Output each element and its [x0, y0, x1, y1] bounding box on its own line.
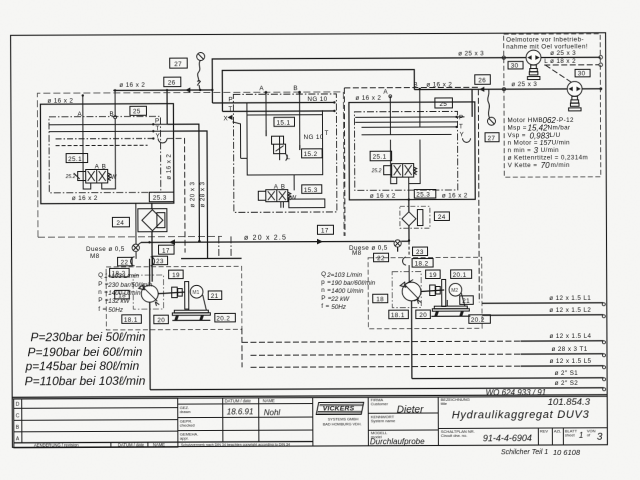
svg-text:Nohl: Nohl [264, 408, 281, 417]
svg-text:A: A [77, 111, 82, 118]
svg-text:M8: M8 [352, 250, 362, 257]
svg-text:23: 23 [156, 258, 164, 265]
svg-text:f =: f = [321, 303, 329, 310]
svg-text:A: A [383, 89, 388, 96]
svg-text:25.3: 25.3 [416, 192, 430, 199]
svg-text:Y: Y [460, 131, 465, 138]
svg-text:Schilcher Teil 1: Schilcher Teil 1 [501, 449, 548, 456]
svg-text:P=230bar bei 50ℓ/min: P=230bar bei 50ℓ/min [30, 330, 145, 345]
svg-text:checked: checked [180, 423, 195, 428]
svg-text:L/U: L/U [550, 132, 561, 139]
svg-text:BAD HOMBURG VDH.: BAD HOMBURG VDH. [323, 422, 362, 426]
svg-text:1400 U/min: 1400 U/min [108, 290, 141, 297]
svg-text:Vsp =: Vsp = [508, 132, 526, 139]
svg-text:Schutzvermerk nach DIN 34 beac: Schutzvermerk nach DIN 34 beachten copyr… [181, 443, 290, 447]
svg-text:p=145bar bei 80ℓ/min: p=145bar bei 80ℓ/min [25, 359, 140, 374]
svg-text:26: 26 [168, 80, 176, 87]
svg-text:132 kW: 132 kW [108, 298, 130, 305]
svg-text:ø 12 x 1.5 L4: ø 12 x 1.5 L4 [549, 333, 591, 340]
svg-text:30: 30 [511, 62, 519, 69]
svg-text:sheet: sheet [565, 432, 576, 437]
svg-text:T: T [228, 106, 232, 113]
svg-text:22: 22 [377, 255, 385, 262]
svg-text:230 bar/50ℓ/min: 230 bar/50ℓ/min [107, 282, 153, 289]
svg-text:25.1: 25.1 [68, 156, 82, 163]
svg-text:190 bar/60ℓ/min: 190 bar/60ℓ/min [331, 280, 376, 287]
svg-text:ø 16 x 2: ø 16 x 2 [370, 193, 396, 200]
svg-text:Hydraulikaggregat DUV3: Hydraulikaggregat DUV3 [452, 409, 590, 422]
svg-text:A: A [274, 184, 279, 191]
svg-text:ø 2″ S1: ø 2″ S1 [555, 370, 579, 377]
svg-text:24: 24 [116, 220, 124, 227]
svg-text:M2: M2 [451, 288, 458, 294]
svg-text:1400 U/min: 1400 U/min [331, 288, 364, 295]
svg-text:20: 20 [157, 317, 165, 324]
svg-text:22: 22 [121, 259, 129, 266]
svg-text:18.6.91: 18.6.91 [227, 407, 254, 416]
svg-text:m/min: m/min [551, 162, 570, 169]
svg-text:AENDERUNG / revision: AENDERUNG / revision [34, 443, 79, 448]
svg-text:B: B [102, 163, 107, 170]
svg-text:21: 21 [211, 293, 219, 300]
svg-text:27: 27 [174, 61, 182, 68]
svg-text:25.3: 25.3 [153, 195, 167, 202]
svg-text:B: B [413, 82, 418, 89]
svg-text:T: T [325, 130, 329, 137]
svg-text:ø 2″ S2: ø 2″ S2 [555, 380, 579, 387]
svg-text:ø 16 x 2: ø 16 x 2 [442, 192, 468, 199]
svg-text:Q: Q [98, 272, 103, 279]
svg-text:ø 16 x 2: ø 16 x 2 [119, 82, 145, 89]
svg-text:18.1: 18.1 [391, 312, 405, 319]
svg-text:SYSTEMS GMBH: SYSTEMS GMBH [328, 417, 359, 421]
svg-text:WO 624 933 / 91: WO 624 933 / 91 [486, 388, 547, 397]
svg-text:B: B [293, 85, 298, 92]
svg-text:n min =: n min = [508, 147, 532, 154]
svg-text:ø 25 x 3: ø 25 x 3 [458, 50, 484, 57]
svg-text:System name: System name [371, 418, 396, 423]
svg-text:2=103 L/min: 2=103 L/min [326, 272, 362, 279]
svg-text:DATUM / date: DATUM / date [225, 398, 252, 403]
svg-text:P: P [228, 96, 233, 103]
svg-text:18.1: 18.1 [124, 317, 138, 324]
svg-text:15.3: 15.3 [304, 187, 318, 194]
svg-text:U/min: U/min [541, 147, 560, 154]
svg-text:P=110bar bei 103ℓ/min: P=110bar bei 103ℓ/min [25, 374, 146, 389]
svg-text:1=103 L/min: 1=103 L/min [104, 273, 139, 280]
svg-text:25: 25 [439, 101, 447, 108]
svg-text:Y: Y [156, 132, 161, 139]
svg-text:title: title [441, 401, 448, 406]
svg-text:ø 28 x 3: ø 28 x 3 [199, 181, 206, 207]
svg-text:91-4-4-6904: 91-4-4-6904 [483, 433, 532, 443]
svg-text:n =: n = [98, 289, 108, 296]
svg-text:NG 10: NG 10 [304, 134, 324, 141]
svg-text:p =: p = [321, 279, 331, 286]
svg-text:Circuit drw. no.: Circuit drw. no. [441, 433, 467, 438]
svg-text:DATUM / date: DATUM / date [118, 442, 145, 447]
svg-text:ø 20 x 3: ø 20 x 3 [189, 181, 196, 207]
svg-text:appr.: appr. [180, 436, 189, 441]
svg-text:50Hz: 50Hz [108, 307, 124, 314]
svg-text:19: 19 [429, 272, 437, 279]
svg-text:20: 20 [419, 312, 427, 319]
svg-text:70: 70 [541, 161, 550, 170]
svg-text:nahme mit Oel vorfuellen!: nahme mit Oel vorfuellen! [506, 43, 588, 50]
svg-text:27: 27 [488, 135, 496, 142]
svg-text:drawn: drawn [180, 409, 191, 414]
svg-text:T: T [155, 125, 159, 132]
svg-text:Duese ø 0,5: Duese ø 0,5 [86, 246, 125, 253]
svg-text:20.2: 20.2 [471, 317, 485, 324]
svg-text:M8: M8 [90, 253, 100, 260]
svg-text:3: 3 [597, 432, 603, 443]
svg-text:Msp =: Msp = [507, 125, 526, 132]
svg-text:P: P [155, 118, 160, 125]
svg-text:U/min: U/min [552, 139, 571, 146]
svg-text:A: A [259, 85, 264, 92]
svg-text:D: D [16, 402, 20, 408]
svg-text:24: 24 [438, 214, 446, 221]
svg-text:NAME: NAME [153, 442, 165, 447]
svg-text:A: A [95, 163, 100, 170]
svg-text:B: B [281, 184, 286, 191]
svg-text:C: C [16, 413, 20, 419]
svg-text:f =: f = [98, 306, 106, 313]
svg-text:ø 12 x 1.5 L1: ø 12 x 1.5 L1 [549, 295, 591, 302]
svg-text:101.854.3: 101.854.3 [548, 397, 591, 408]
svg-text:NAME: NAME [263, 398, 275, 403]
svg-text:ø 12 x 1.5 L2: ø 12 x 1.5 L2 [549, 307, 591, 314]
svg-text:20.2: 20.2 [216, 315, 230, 322]
svg-text:n =: n = [321, 287, 331, 294]
svg-text:ø 16 x 2: ø 16 x 2 [355, 95, 381, 102]
svg-text:17: 17 [162, 247, 170, 254]
svg-text:20.1: 20.1 [453, 272, 467, 279]
svg-text:ø 16 x 2: ø 16 x 2 [72, 195, 98, 202]
svg-text:30: 30 [578, 70, 586, 77]
svg-text:P: P [459, 114, 464, 121]
svg-text:ø 12 x 1.5 L5: ø 12 x 1.5 L5 [550, 358, 592, 365]
svg-text:ø 25 x 3: ø 25 x 3 [511, 81, 537, 88]
svg-text:1: 1 [579, 431, 583, 440]
svg-text:B: B [109, 111, 114, 118]
svg-text:-P-12: -P-12 [556, 117, 574, 124]
svg-text:ø 28 x 3 T1: ø 28 x 3 T1 [551, 346, 587, 353]
svg-text:50Hz: 50Hz [331, 304, 347, 311]
svg-text:ø 20 x 2.5: ø 20 x 2.5 [244, 235, 287, 242]
svg-text:L ø 18 x 2: L ø 18 x 2 [544, 58, 576, 65]
svg-text:W: W [111, 174, 117, 181]
svg-text:ø 16 x 2: ø 16 x 2 [166, 154, 173, 180]
svg-text:L: L [287, 154, 291, 161]
svg-text:15.1: 15.1 [276, 120, 290, 127]
svg-text:25.2: 25.2 [65, 174, 76, 180]
svg-text:W: W [290, 195, 296, 202]
svg-text:T: T [459, 123, 463, 130]
svg-text:18.2: 18.2 [415, 261, 429, 268]
svg-text:25.1: 25.1 [373, 154, 387, 161]
svg-text:Dieter: Dieter [397, 405, 424, 416]
svg-text:REV: REV [540, 429, 549, 434]
svg-text:15.2: 15.2 [304, 151, 318, 158]
svg-text:18: 18 [376, 296, 384, 303]
svg-text:25: 25 [133, 108, 141, 115]
svg-text:25.2: 25.2 [371, 168, 382, 174]
svg-text:V Kette =: V Kette = [508, 162, 538, 169]
svg-text:AZL: AZL [554, 428, 562, 433]
svg-text:Durchlaufprobe: Durchlaufprobe [370, 437, 425, 446]
svg-text:17: 17 [321, 227, 329, 234]
svg-text:Nm/bar: Nm/bar [547, 124, 570, 131]
svg-text:Q: Q [321, 271, 326, 278]
svg-text:NG 10: NG 10 [307, 96, 327, 103]
svg-text:10 6108: 10 6108 [553, 448, 581, 457]
svg-text:23: 23 [416, 249, 424, 256]
svg-text:P=190bar bei 60ℓ/min: P=190bar bei 60ℓ/min [27, 345, 142, 360]
svg-text:19: 19 [172, 272, 180, 279]
svg-text:157: 157 [540, 140, 553, 147]
svg-text:X: X [223, 115, 228, 122]
svg-text:Customer: Customer [371, 401, 389, 406]
svg-text:26: 26 [478, 77, 486, 84]
svg-text:22 kW: 22 kW [330, 296, 350, 303]
svg-text:VICKERS: VICKERS [323, 405, 355, 412]
svg-text:21: 21 [462, 298, 470, 305]
svg-text:ø 16 x 2: ø 16 x 2 [47, 98, 73, 105]
svg-text:M1: M1 [192, 290, 199, 296]
svg-text:ø 25 x 3: ø 25 x 3 [550, 50, 576, 57]
